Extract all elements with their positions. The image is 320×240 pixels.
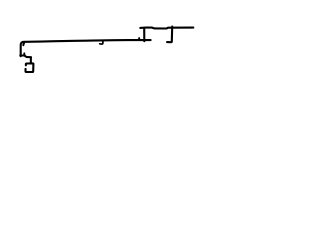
stub hook under wire: [100, 41, 103, 44]
riser 1 vertical: [143, 29, 145, 42]
step tick up: [23, 53, 25, 55]
node bump on wire: [138, 38, 140, 40]
wire main horizontal with left corner down: [21, 40, 151, 56]
corner tick: [22, 42, 25, 45]
wire step horizontal: [20, 54, 24, 56]
wire step diagonal: [25, 56, 27, 57]
riser 2 vertical with foot: [167, 27, 172, 43]
top bar horizontal: [140, 28, 193, 29]
terminal bracket open left: [25, 63, 33, 72]
wire drop vertical: [30, 58, 32, 64]
wire step horizontal 2: [27, 56, 31, 58]
